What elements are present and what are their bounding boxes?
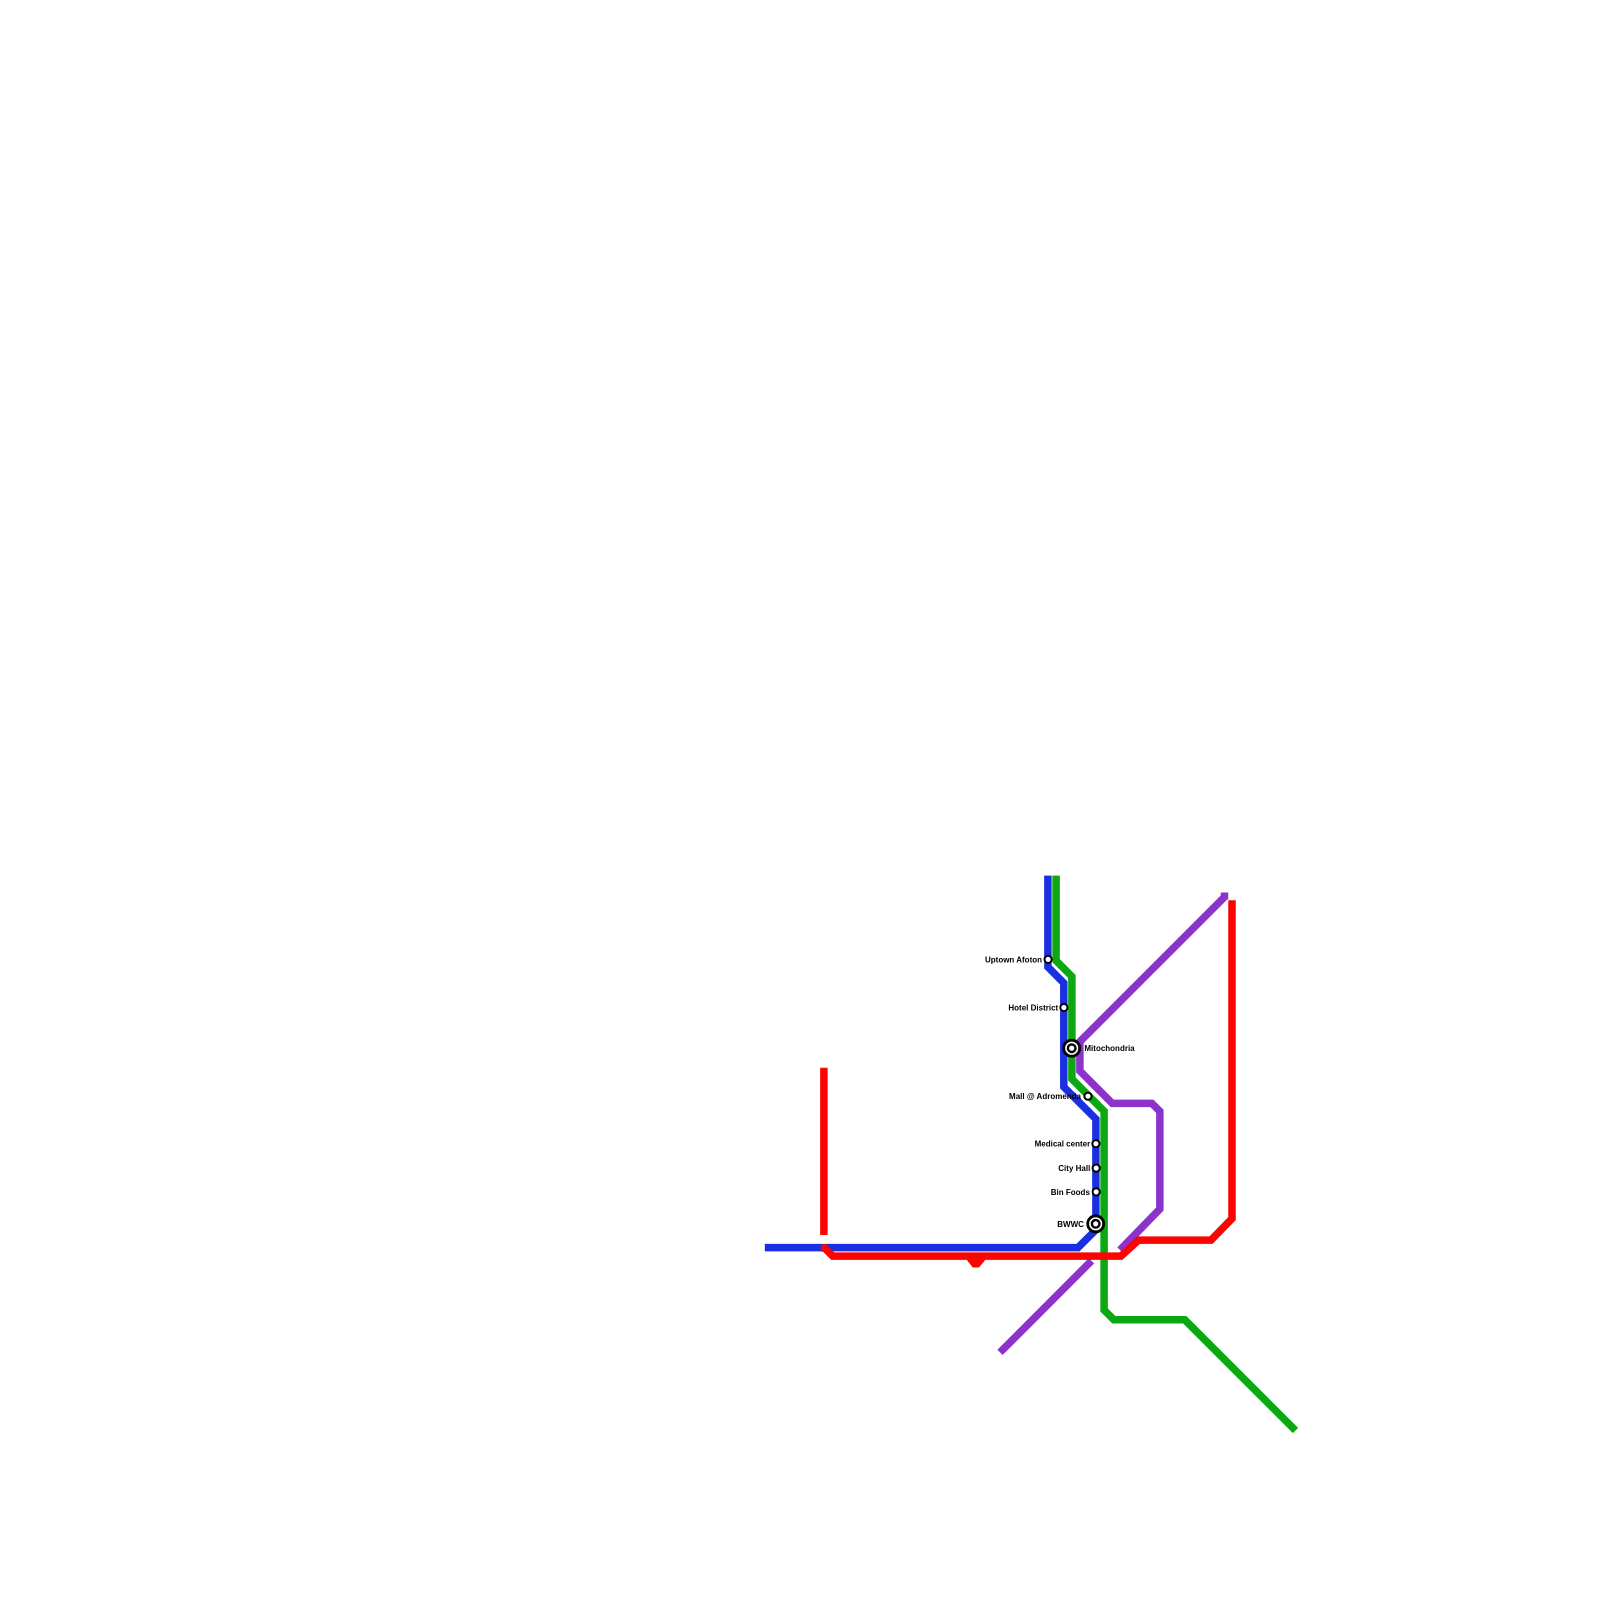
svg-text:Bin Foods: Bin Foods [1051,1188,1091,1197]
svg-text:Mitochondria: Mitochondria [1084,1044,1135,1053]
svg-text:Uptown Afoton: Uptown Afoton [985,955,1042,964]
svg-text:BWWC: BWWC [1057,1220,1084,1229]
svg-text:City Hall: City Hall [1058,1164,1090,1173]
svg-text:Mall @ Adromenda: Mall @ Adromenda [1009,1092,1082,1101]
svg-text:Hotel District: Hotel District [1008,1004,1058,1013]
svg-text:Medical center: Medical center [1035,1140,1091,1149]
